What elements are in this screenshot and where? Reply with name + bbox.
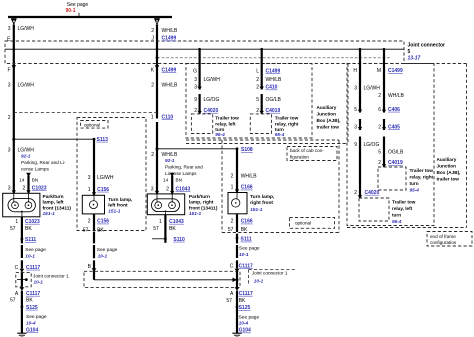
svg-text:10-1: 10-1 [25, 254, 35, 260]
svg-text:C1117: C1117 [26, 265, 40, 271]
svg-text:3: 3 [8, 82, 11, 88]
svg-text:relay, right: relay, right [410, 175, 434, 180]
svg-text:3: 3 [8, 26, 11, 32]
svg-text:LG/OG: LG/OG [364, 142, 380, 148]
svg-text:OG/LB: OG/LB [266, 97, 282, 103]
svg-text:S111: S111 [25, 237, 36, 243]
svg-text:See page: See page [239, 246, 260, 252]
svg-text:BK: BK [26, 297, 33, 303]
svg-text:92-1: 92-1 [165, 158, 175, 163]
svg-text:2: 2 [8, 115, 11, 121]
svg-text:See page: See page [239, 314, 260, 320]
svg-text:H: H [353, 68, 357, 74]
svg-text:1: 1 [231, 185, 234, 191]
svg-text:2: 2 [88, 219, 91, 225]
svg-text:57: 57 [10, 226, 16, 232]
svg-text:LG/WH: LG/WH [364, 85, 381, 91]
svg-text:Joint connector 1: Joint connector 1 [252, 270, 288, 275]
svg-text:back of cab con-: back of cab con- [290, 148, 324, 153]
svg-text:57: 57 [83, 228, 89, 234]
svg-text:C1023: C1023 [25, 219, 40, 225]
svg-text:10-1: 10-1 [254, 279, 264, 284]
svg-text:3: 3 [8, 186, 11, 192]
svg-text:10-1: 10-1 [98, 254, 108, 260]
svg-text:S108: S108 [241, 147, 253, 153]
svg-text:2: 2 [256, 77, 259, 83]
svg-text:92-1: 92-1 [21, 153, 31, 158]
svg-text:C156: C156 [97, 219, 109, 225]
svg-text:C1043: C1043 [169, 219, 184, 225]
svg-text:LG/WH: LG/WH [97, 175, 114, 181]
svg-text:S110: S110 [173, 237, 185, 243]
svg-text:S125: S125 [239, 305, 251, 311]
svg-text:C1499: C1499 [388, 68, 403, 74]
svg-text:5: 5 [408, 49, 411, 55]
svg-text:lamp, left: lamp, left [43, 200, 64, 206]
svg-text:Junction: Junction [437, 164, 457, 169]
svg-text:1: 1 [15, 219, 18, 225]
svg-text:end of frame: end of frame [430, 234, 456, 239]
svg-text:5: 5 [354, 107, 357, 113]
svg-text:Turn lamp,: Turn lamp, [108, 197, 133, 203]
svg-text:WH/LB: WH/LB [388, 93, 405, 99]
svg-text:95-4: 95-4 [215, 132, 225, 137]
svg-text:2: 2 [23, 186, 26, 192]
svg-text:License Lamps: License Lamps [165, 171, 197, 176]
svg-text:151-1: 151-1 [108, 209, 121, 215]
svg-text:C405: C405 [388, 124, 400, 130]
svg-text:L: L [256, 69, 259, 75]
svg-text:C406: C406 [388, 107, 400, 113]
svg-text:Auxiliary: Auxiliary [437, 157, 457, 162]
svg-text:Trailer tow: Trailer tow [215, 116, 239, 121]
svg-text:1: 1 [88, 187, 91, 193]
svg-text:WH/LB: WH/LB [241, 174, 258, 180]
svg-text:S111: S111 [241, 237, 252, 243]
svg-text:5: 5 [256, 97, 259, 103]
svg-text:Joint connector: Joint connector [408, 43, 446, 49]
svg-text:Parking, Rear and Li-: Parking, Rear and Li- [21, 160, 66, 165]
svg-text:G104: G104 [26, 328, 38, 334]
svg-text:95-4: 95-4 [275, 132, 285, 137]
svg-text:G: G [193, 69, 197, 75]
svg-text:See page: See page [25, 247, 46, 253]
svg-text:14: 14 [19, 178, 25, 183]
svg-text:C166: C166 [241, 185, 253, 191]
svg-text:WH/LB: WH/LB [162, 28, 179, 34]
svg-text:1: 1 [151, 114, 154, 120]
svg-text:2: 2 [378, 124, 381, 130]
svg-text:configuration: configuration [430, 240, 457, 245]
svg-text:M: M [377, 68, 381, 74]
svg-text:C156: C156 [97, 187, 109, 193]
svg-text:C: C [15, 265, 19, 271]
svg-text:151-1: 151-1 [189, 211, 202, 217]
svg-text:S125: S125 [26, 305, 38, 311]
svg-text:turn: turn [392, 213, 401, 218]
svg-text:turn: turn [410, 181, 419, 186]
svg-text:F: F [7, 68, 10, 74]
svg-text:2: 2 [354, 190, 357, 196]
svg-text:C4019: C4019 [266, 108, 281, 114]
svg-text:2: 2 [256, 85, 259, 91]
svg-text:Joint connector 1: Joint connector 1 [33, 273, 69, 278]
svg-text:2: 2 [231, 219, 234, 225]
svg-text:figuration: figuration [290, 154, 309, 159]
svg-text:Parking, Rear and: Parking, Rear and [165, 165, 203, 170]
svg-text:C410: C410 [266, 85, 278, 91]
svg-text:C1023: C1023 [32, 186, 47, 192]
svg-text:Trailer tow: Trailer tow [392, 200, 416, 205]
svg-text:3: 3 [88, 175, 91, 181]
svg-text:Trailer tow: Trailer tow [410, 168, 434, 173]
svg-text:LG/WH: LG/WH [18, 26, 35, 32]
svg-text:LG/OG: LG/OG [204, 97, 220, 103]
svg-text:Auxiliary: Auxiliary [317, 105, 337, 110]
svg-text:13-17: 13-17 [408, 56, 421, 62]
svg-text:Turn lamp,: Turn lamp, [250, 194, 275, 200]
svg-text:Box (AJB),: Box (AJB), [317, 118, 341, 123]
svg-text:front (13411): front (13411) [43, 205, 72, 211]
svg-text:3: 3 [354, 124, 357, 130]
svg-text:front (13411): front (13411) [189, 205, 218, 211]
svg-text:Box (AJB),: Box (AJB), [437, 170, 461, 175]
svg-text:OG/LB: OG/LB [388, 149, 404, 155]
svg-text:151-1: 151-1 [43, 211, 56, 217]
svg-text:10-4: 10-4 [26, 321, 36, 327]
svg-text:BK: BK [239, 298, 246, 304]
svg-text:C1117: C1117 [239, 291, 253, 297]
svg-text:5: 5 [378, 149, 381, 155]
svg-text:C4020: C4020 [204, 108, 219, 114]
svg-text:BN: BN [176, 178, 183, 183]
svg-text:right front: right front [250, 200, 273, 206]
svg-text:57: 57 [10, 297, 16, 303]
svg-text:10-4: 10-4 [239, 321, 249, 327]
svg-text:10-1: 10-1 [34, 280, 44, 285]
svg-text:2: 2 [151, 152, 154, 158]
svg-text:57: 57 [153, 226, 159, 232]
svg-text:C110: C110 [162, 114, 174, 120]
svg-text:3: 3 [8, 147, 11, 153]
svg-text:2: 2 [378, 93, 381, 99]
svg-text:relay, left: relay, left [215, 121, 236, 126]
svg-text:C4020: C4020 [365, 190, 380, 196]
svg-text:90-1: 90-1 [65, 8, 75, 14]
svg-text:BK: BK [25, 226, 32, 232]
svg-text:C1117: C1117 [239, 263, 253, 269]
svg-text:See page: See page [97, 247, 118, 253]
svg-text:151-1: 151-1 [250, 207, 263, 213]
svg-text:3: 3 [151, 186, 154, 192]
svg-text:lamp, right: lamp, right [189, 200, 214, 206]
svg-text:6: 6 [378, 107, 381, 113]
svg-text:2: 2 [151, 28, 154, 34]
svg-text:WH/LB: WH/LB [162, 82, 179, 88]
svg-text:10-1: 10-1 [239, 252, 249, 258]
svg-text:optional: optional [84, 122, 100, 127]
svg-text:2: 2 [378, 160, 381, 166]
svg-text:Park/turn: Park/turn [189, 194, 210, 200]
svg-text:95-4: 95-4 [392, 219, 402, 224]
svg-text:3: 3 [194, 85, 197, 91]
svg-text:See page: See page [26, 314, 47, 320]
svg-text:C1499: C1499 [162, 36, 177, 42]
svg-text:C1117: C1117 [26, 291, 40, 297]
svg-text:left front: left front [108, 203, 128, 209]
svg-text:1: 1 [159, 219, 162, 225]
svg-text:C1499: C1499 [162, 68, 177, 74]
svg-text:3: 3 [354, 85, 357, 91]
svg-text:BN: BN [32, 178, 39, 183]
svg-text:2: 2 [151, 82, 154, 88]
svg-text:C: C [230, 263, 234, 269]
svg-text:WH/LB: WH/LB [266, 77, 283, 83]
svg-text:14: 14 [163, 178, 169, 183]
svg-text:9: 9 [354, 142, 357, 148]
svg-text:trailer tow: trailer tow [437, 177, 460, 182]
svg-text:57: 57 [226, 298, 232, 304]
svg-text:C1043: C1043 [176, 186, 191, 192]
svg-text:LG/WH: LG/WH [204, 77, 221, 83]
svg-text:LG/WH: LG/WH [18, 82, 35, 88]
svg-text:Trailer tow: Trailer tow [275, 116, 299, 121]
svg-text:2: 2 [166, 186, 169, 192]
svg-text:optional: optional [295, 221, 311, 226]
svg-text:relay, right: relay, right [275, 121, 299, 126]
svg-text:95-4: 95-4 [410, 188, 420, 193]
svg-text:C1499: C1499 [266, 69, 281, 75]
svg-text:S113: S113 [97, 137, 109, 143]
svg-text:9: 9 [194, 97, 197, 103]
svg-text:2: 2 [256, 108, 259, 114]
svg-text:3: 3 [194, 77, 197, 83]
svg-text:Junction: Junction [317, 112, 337, 117]
svg-text:2: 2 [194, 108, 197, 114]
svg-text:trailer tow: trailer tow [317, 125, 340, 130]
svg-text:2: 2 [231, 174, 234, 180]
svg-text:cense Lamps: cense Lamps [21, 166, 50, 171]
svg-text:BK: BK [97, 228, 104, 234]
svg-text:BK: BK [169, 226, 176, 232]
svg-text:C4019: C4019 [388, 160, 403, 166]
svg-text:relay, left: relay, left [392, 206, 413, 211]
svg-text:Park/turn: Park/turn [43, 194, 64, 200]
svg-text:C166: C166 [241, 219, 253, 225]
